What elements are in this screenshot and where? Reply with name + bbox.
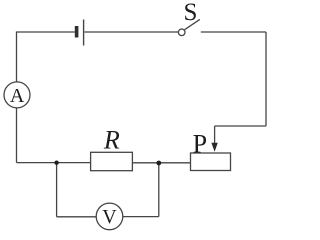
wire horizontal toward rheostat wiper: [215, 125, 266, 127]
svg-text:S: S: [183, 0, 197, 26]
junction node right (voltmeter tap): [156, 161, 161, 166]
switch S lever (open): [185, 19, 200, 29]
wire resistor to rheostat: [132, 162, 190, 164]
wire top-left from corner to battery: [17, 32, 75, 163]
battery thick short plate (negative): [75, 26, 79, 38]
wire voltmeter to right vertical: [123, 216, 159, 218]
svg-text:P: P: [193, 129, 207, 158]
resistor R box: [91, 152, 133, 170]
wire voltmeter branch bottom-left: [57, 216, 97, 218]
voltmeter V circle: [96, 203, 123, 230]
wire battery to switch: [85, 31, 179, 33]
wire voltmeter branch left vertical: [56, 163, 58, 217]
ammeter A circle: [4, 82, 30, 108]
junction node left (voltmeter tap): [54, 161, 58, 165]
rheostat wiper arrow stem: [214, 126, 216, 144]
wire switch to top-right corner: [201, 31, 266, 33]
battery thin long plate (positive): [83, 20, 85, 46]
wire right vertical down: [265, 32, 267, 126]
svg-text:A: A: [10, 85, 25, 107]
wire voltmeter branch right vertical: [158, 163, 160, 217]
svg-text:V: V: [102, 206, 117, 228]
svg-text:R: R: [103, 125, 120, 154]
switch S pivot circle: [178, 29, 185, 36]
rheostat P box: [191, 153, 231, 171]
rheostat wiper arrowhead: [211, 143, 217, 152]
wire bottom-left to resistor: [17, 162, 91, 164]
